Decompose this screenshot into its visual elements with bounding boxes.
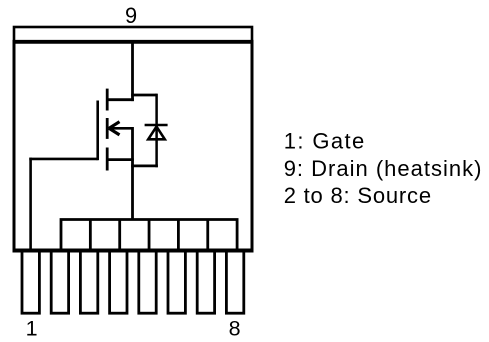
- wire: drain to channel: [106, 98, 134, 101]
- pin 4: [110, 250, 127, 313]
- diode D1 cathode bar: [145, 124, 168, 127]
- source bus finger at pin 3: [89, 220, 92, 251]
- source bus comb top: [61, 220, 237, 251]
- transistor Q1 body arrow head: [109, 122, 120, 135]
- pin 3: [80, 250, 97, 313]
- wire: body to source bus: [131, 127, 134, 220]
- wire: drain to diode top: [131, 94, 156, 97]
- transistor Q1 channel middle segment: [106, 118, 109, 139]
- package bottom edge: [13, 249, 254, 253]
- pin 2: [51, 250, 68, 313]
- package top edge: [13, 40, 254, 44]
- transistor Q1 channel bottom segment: [106, 148, 109, 171]
- source bus finger at pin 6: [177, 220, 180, 251]
- svg-text:2 to 8: Source: 2 to 8: Source: [284, 183, 432, 208]
- svg-text:1: 1: [26, 317, 38, 341]
- pin 5: [139, 250, 156, 313]
- source bus finger at pin 4: [118, 220, 121, 251]
- wire: drain lead from tab: [131, 41, 134, 101]
- source bus finger at pin 7: [206, 220, 209, 251]
- svg-text:9: 9: [125, 3, 137, 28]
- svg-text:1: Gate: 1: Gate: [284, 128, 366, 153]
- pin 1: [22, 250, 39, 313]
- wire: gate lead horizontal: [29, 158, 97, 161]
- pin 7: [197, 250, 214, 313]
- svg-text:9: Drain (heatsink): 9: Drain (heatsink): [284, 156, 483, 181]
- svg-text:8: 8: [229, 317, 241, 341]
- transistor Q1 channel top segment: [106, 89, 109, 111]
- wire: gate lead down to pin 1: [29, 158, 32, 251]
- wire: source to channel: [106, 158, 134, 161]
- package body: [14, 42, 252, 251]
- transistor Q1 body arrow shaft: [109, 127, 134, 130]
- tab (pin 9 drain heatsink): [14, 27, 252, 42]
- pin 8: [226, 250, 243, 313]
- wire: diode cathode lead: [155, 94, 158, 168]
- transistor Q1 gate plate: [96, 101, 99, 161]
- source bus finger at pin 5: [148, 220, 151, 251]
- diode D1 anode triangle: [148, 127, 165, 140]
- pin 6: [168, 250, 185, 313]
- wire: diode bottom to source: [131, 164, 158, 167]
